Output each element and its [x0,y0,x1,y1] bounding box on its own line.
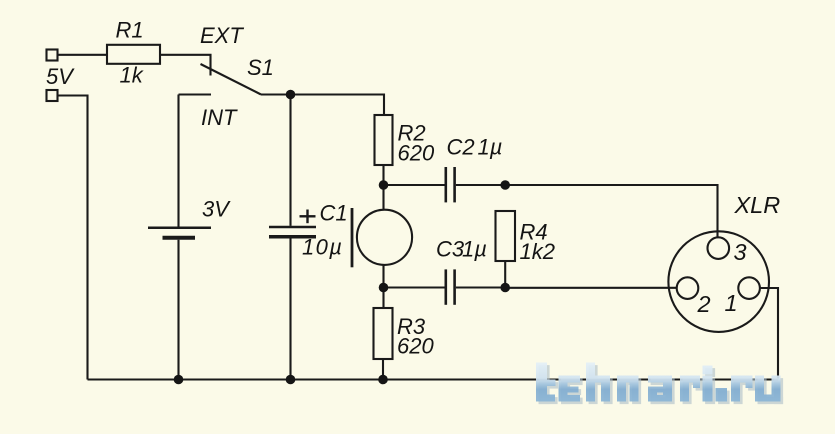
svg-text:C3: C3 [436,237,465,262]
wire node B to R3 top [382,288,384,309]
junction dot S1 output node [286,90,296,100]
junction dot battery ground [174,375,184,385]
wire node D to XLR pin 2 [505,287,677,289]
resistor R3 [374,308,393,359]
svg-text:1k: 1k [120,62,144,87]
junction dot node A [379,180,389,190]
microphone BM1 membrane bar [351,208,354,267]
label C1 polarity plus [300,215,316,217]
XLR pin 2 [677,277,699,299]
svg-text:S1: S1 [247,55,274,80]
wire XLR pin 1 to ground rail [760,288,778,380]
resistor R1 [107,45,160,64]
watermark tehnari.ru [536,363,781,402]
capacitor C1 positive plate [269,226,316,229]
switch S1 lever [201,64,262,95]
junction dot node D [500,283,510,293]
svg-text:R1: R1 [116,17,144,42]
wire node A to C2 left plate [384,184,445,186]
wire R3 bottom to ground rail [382,359,384,380]
wire C1 bottom to ground rail [289,238,291,379]
resistor R4 [496,211,516,261]
wire R2 bottom to node A [382,165,384,185]
svg-text:10µ: 10µ [302,235,343,260]
battery BT 3V negative plate [163,236,196,240]
svg-text:1: 1 [725,290,738,316]
svg-text:620: 620 [398,140,435,165]
capacitor C2 right plate [453,167,456,202]
capacitor C3 left plate [444,269,447,304]
capacitor C3 right plate [453,269,456,304]
wire R1 to switch EXT contact [160,55,211,76]
wire R4 bottom to node D [504,261,506,288]
resistor R2 [375,115,393,165]
wire terminal to R1 [58,54,108,56]
junction dot node B [379,283,389,293]
junction dot node C [500,180,510,190]
svg-text:1µ: 1µ [478,134,503,159]
junction dot R3 ground [378,375,388,385]
svg-text:C2: C2 [447,134,475,159]
terminal square 5V minus [47,90,58,101]
capacitor C2 left plate [444,167,447,202]
junction dot C1 ground [286,375,296,385]
microphone BM1 body [357,210,412,265]
wire node A to mic top [382,185,384,210]
svg-text:C1: C1 [320,200,348,225]
svg-text:3: 3 [734,239,747,265]
svg-text:3V: 3V [202,196,231,221]
ground rail wire [88,378,779,380]
svg-text:620: 620 [397,333,434,358]
wire terminal minus down left side [58,96,88,380]
svg-text:2: 2 [697,291,711,317]
wire S1 to R2 top [261,95,384,116]
wire mic bottom to node B [382,265,384,288]
XLR pin 1 [738,277,760,299]
svg-text:5V: 5V [46,64,75,89]
wire battery bottom to ground rail [177,240,179,380]
svg-text:EXT: EXT [200,23,244,48]
watermark tehnari.ru shadow [539,365,784,404]
battery BT 3V positive plate [148,227,211,230]
capacitor C1 negative plate [269,235,316,239]
terminal square 5V plus [47,50,58,61]
wire node B to C3 left plate [384,286,445,288]
svg-text:1k2: 1k2 [520,239,555,264]
wire S1 junction down to C1 top [289,95,291,226]
wire C3 to node D [456,286,505,288]
XLR connector body [668,231,769,332]
svg-text:XLR: XLR [734,192,781,218]
wire INT contact to battery top [177,95,179,227]
switch S1 INT contact stub [179,93,212,95]
wire C2 to XLR pin 3 [456,185,718,237]
XLR pin 3 [708,237,730,259]
svg-text:INT: INT [201,105,238,130]
svg-text:1µ: 1µ [462,237,487,262]
